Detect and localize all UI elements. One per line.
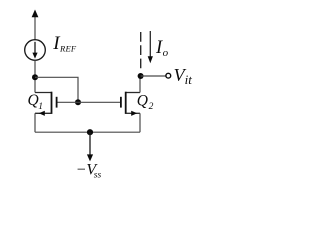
wire: output node to terminal	[141, 75, 166, 77]
svg-text:REF: REF	[59, 44, 77, 54]
wire: current source to Q1 drain	[34, 60, 36, 92]
arrow Io	[148, 31, 153, 63]
label Q1	[28, 92, 43, 112]
current source IREF	[25, 40, 46, 61]
svg-text:2: 2	[149, 102, 154, 112]
svg-text:1: 1	[38, 102, 43, 112]
svg-text:o: o	[163, 47, 169, 59]
wire: drain node to gate drop	[35, 77, 78, 102]
svg-text:Q: Q	[28, 92, 39, 109]
label IREF	[52, 33, 77, 54]
transistor Q1	[35, 92, 57, 133]
node: output node	[138, 73, 144, 79]
wire: gate bus Q1 to Q2	[57, 101, 121, 103]
wire: -Vss arrow	[87, 132, 93, 161]
wire: dashed output branch	[140, 32, 142, 69]
svg-text:ss: ss	[94, 170, 102, 180]
label Q2	[137, 93, 154, 113]
label Io	[155, 38, 169, 59]
node: drain-gate tie point of Q1	[32, 74, 38, 80]
terminal: open circle	[166, 73, 171, 78]
label Vit	[174, 65, 193, 87]
wire: bottom rail	[35, 131, 140, 133]
svg-text:it: it	[185, 72, 193, 87]
wire: top supply lead with up arrow	[32, 10, 39, 40]
svg-text:Q: Q	[137, 93, 148, 110]
node: gate line junction	[75, 99, 81, 105]
label -Vss	[76, 162, 102, 181]
transistor Q2	[121, 76, 140, 132]
node: bottom rail junction	[87, 129, 93, 135]
